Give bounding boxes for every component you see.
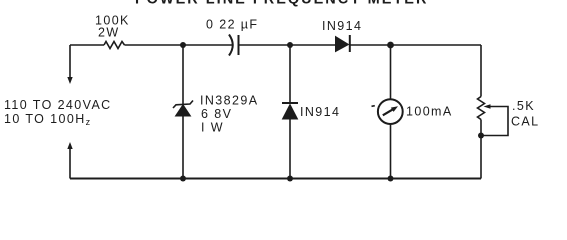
wire: left input lower lead — [69, 147, 71, 179]
zener D2 triangle — [176, 105, 191, 116]
zener D2 bar (bent) — [173, 101, 193, 109]
wire: diode branch upper — [289, 45, 291, 103]
resistor R 100K zigzag — [104, 42, 125, 49]
junction dot pot wiper — [478, 133, 484, 139]
wire: zener branch upper — [182, 45, 184, 104]
svg-text:IN914: IN914 — [300, 105, 340, 119]
wire: diode branch lower — [289, 119, 291, 179]
meter M1 needle — [383, 106, 398, 115]
arrowhead input upper (down) — [67, 77, 72, 84]
label 100mA — [406, 105, 453, 119]
svg-text:CAL: CAL — [511, 115, 540, 129]
label IN914 top — [322, 19, 362, 33]
label 110 TO 240VAC — [4, 98, 112, 112]
label 0.22uF — [206, 18, 258, 32]
junction dot top meter — [387, 42, 394, 49]
svg-text:100mA: 100mA — [406, 105, 453, 119]
meter tick mark — [372, 105, 375, 108]
wire: meter branch lower — [390, 124, 392, 179]
potentiometer wiper arrow — [484, 104, 509, 135]
label 100K — [95, 14, 130, 28]
capacitor C 0.22uF curved plate — [229, 35, 233, 56]
label 6.8V — [201, 107, 232, 121]
svg-text:0 22 µF: 0 22 µF — [206, 18, 258, 32]
junction dot top diode — [287, 42, 293, 48]
diode D1 1N914 triangle — [336, 37, 349, 52]
label .5K — [512, 99, 535, 113]
wire: top rail capacitor to diode — [240, 44, 336, 46]
wire: top rail diode to right corner — [350, 44, 481, 46]
svg-text:110 TO 240VAC: 110 TO 240VAC — [4, 98, 112, 112]
wire: meter branch upper — [390, 45, 392, 99]
label 2W — [98, 26, 120, 40]
diode D3 cathode bar — [282, 102, 298, 104]
meter M1 circle — [378, 99, 403, 124]
svg-text:IN914: IN914 — [322, 19, 362, 33]
wire: left input upper lead — [69, 45, 71, 79]
svg-text:POWER LINE FREQUENCY METER: POWER LINE FREQUENCY METER — [135, 0, 428, 8]
junction dot bottom diode — [287, 176, 293, 182]
diode D1 cathode bar — [349, 35, 351, 52]
wire: top rail left segment — [70, 44, 104, 46]
label 10 TO 100Hz — [4, 112, 92, 127]
svg-text:.5K: .5K — [512, 99, 535, 113]
junction dot top zener — [180, 42, 186, 48]
potentiometer R2 zigzag — [478, 97, 485, 120]
svg-text:6 8V: 6 8V — [201, 107, 232, 121]
wire: right rail upper — [480, 45, 482, 97]
svg-text:IN3829A: IN3829A — [200, 94, 258, 108]
wire: top rail resistor to capacitor — [125, 44, 234, 46]
junction dot bottom meter — [388, 176, 394, 182]
capacitor C 0.22uF straight plate — [238, 35, 240, 55]
wire: zener branch lower — [182, 116, 184, 179]
junction dot bottom zener — [180, 176, 186, 182]
svg-text:2W: 2W — [98, 26, 120, 40]
label CAL — [511, 115, 540, 129]
label IN3829A — [200, 94, 258, 108]
wire: bottom rail — [70, 178, 481, 180]
svg-text:I W: I W — [201, 121, 224, 135]
title (clipped at top edge) — [135, 0, 428, 8]
label IN914 right — [300, 105, 340, 119]
svg-text:10 TO 100Hz: 10 TO 100Hz — [4, 112, 92, 127]
diode D3 triangle — [283, 105, 298, 120]
arrowhead input lower (up) — [67, 142, 72, 149]
label 1W — [201, 121, 224, 135]
wire: right rail lower — [480, 120, 482, 179]
